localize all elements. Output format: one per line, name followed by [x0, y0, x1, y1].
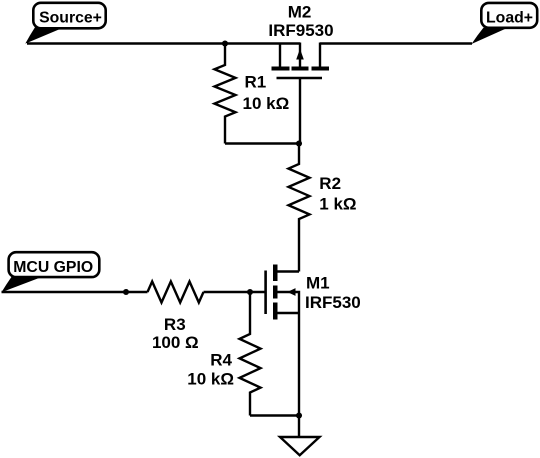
node junction dot on GPIO wire	[123, 289, 129, 295]
resistor R3	[148, 282, 204, 303]
wire top right (M2 drain to Load+)	[320, 42, 472, 44]
transistor M2 (P-channel MOSFET, horizontal, gate below)	[272, 43, 330, 79]
transistor M1 (N-channel MOSFET, vertical, gate left)	[266, 265, 299, 320]
resistor R4	[240, 292, 261, 416]
flag MCU GPIO	[2, 252, 100, 292]
svg-text:Load+: Load+	[486, 9, 533, 26]
ground	[280, 437, 320, 455]
node junction dot: ground node	[296, 412, 302, 418]
flag Source+	[25, 3, 105, 44]
svg-text:M2: M2	[288, 3, 312, 22]
svg-text:R2: R2	[319, 174, 341, 193]
svg-text:10 kΩ: 10 kΩ	[187, 370, 234, 389]
svg-text:100 Ω: 100 Ω	[152, 333, 199, 352]
svg-text:10 kΩ: 10 kΩ	[243, 94, 290, 113]
svg-text:R1: R1	[245, 73, 267, 92]
wire MCU GPIO to R3	[2, 291, 148, 293]
wire R1 bottom to gate node	[225, 142, 299, 144]
svg-text:Source+: Source+	[39, 9, 102, 26]
flag Load+	[472, 3, 538, 44]
wire top left (Source+ to M2)	[27, 42, 300, 44]
wire R3 to M1 gate	[204, 291, 265, 293]
wire ground stem	[298, 416, 300, 438]
node junction dot: R1/R2/M2-gate	[296, 140, 302, 146]
svg-text:MCU GPIO: MCU GPIO	[13, 259, 93, 276]
node junction dot: R1 top on source rail	[222, 40, 228, 46]
svg-text:R4: R4	[210, 351, 232, 370]
svg-text:IRF530: IRF530	[305, 293, 361, 312]
wire M1 source down to ground node	[298, 313, 300, 416]
wire M2 gate lead down to R1/R2 node	[299, 78, 301, 144]
svg-text:R3: R3	[164, 315, 186, 334]
svg-text:M1: M1	[306, 274, 330, 293]
svg-text:1 kΩ: 1 kΩ	[319, 195, 356, 214]
resistor R2	[289, 144, 310, 272]
resistor R1	[215, 44, 236, 144]
svg-text:IRF9530: IRF9530	[268, 21, 333, 40]
wire R4 bottom to ground node	[250, 414, 299, 416]
node junction dot: R3/R4/M1-gate	[247, 289, 253, 295]
